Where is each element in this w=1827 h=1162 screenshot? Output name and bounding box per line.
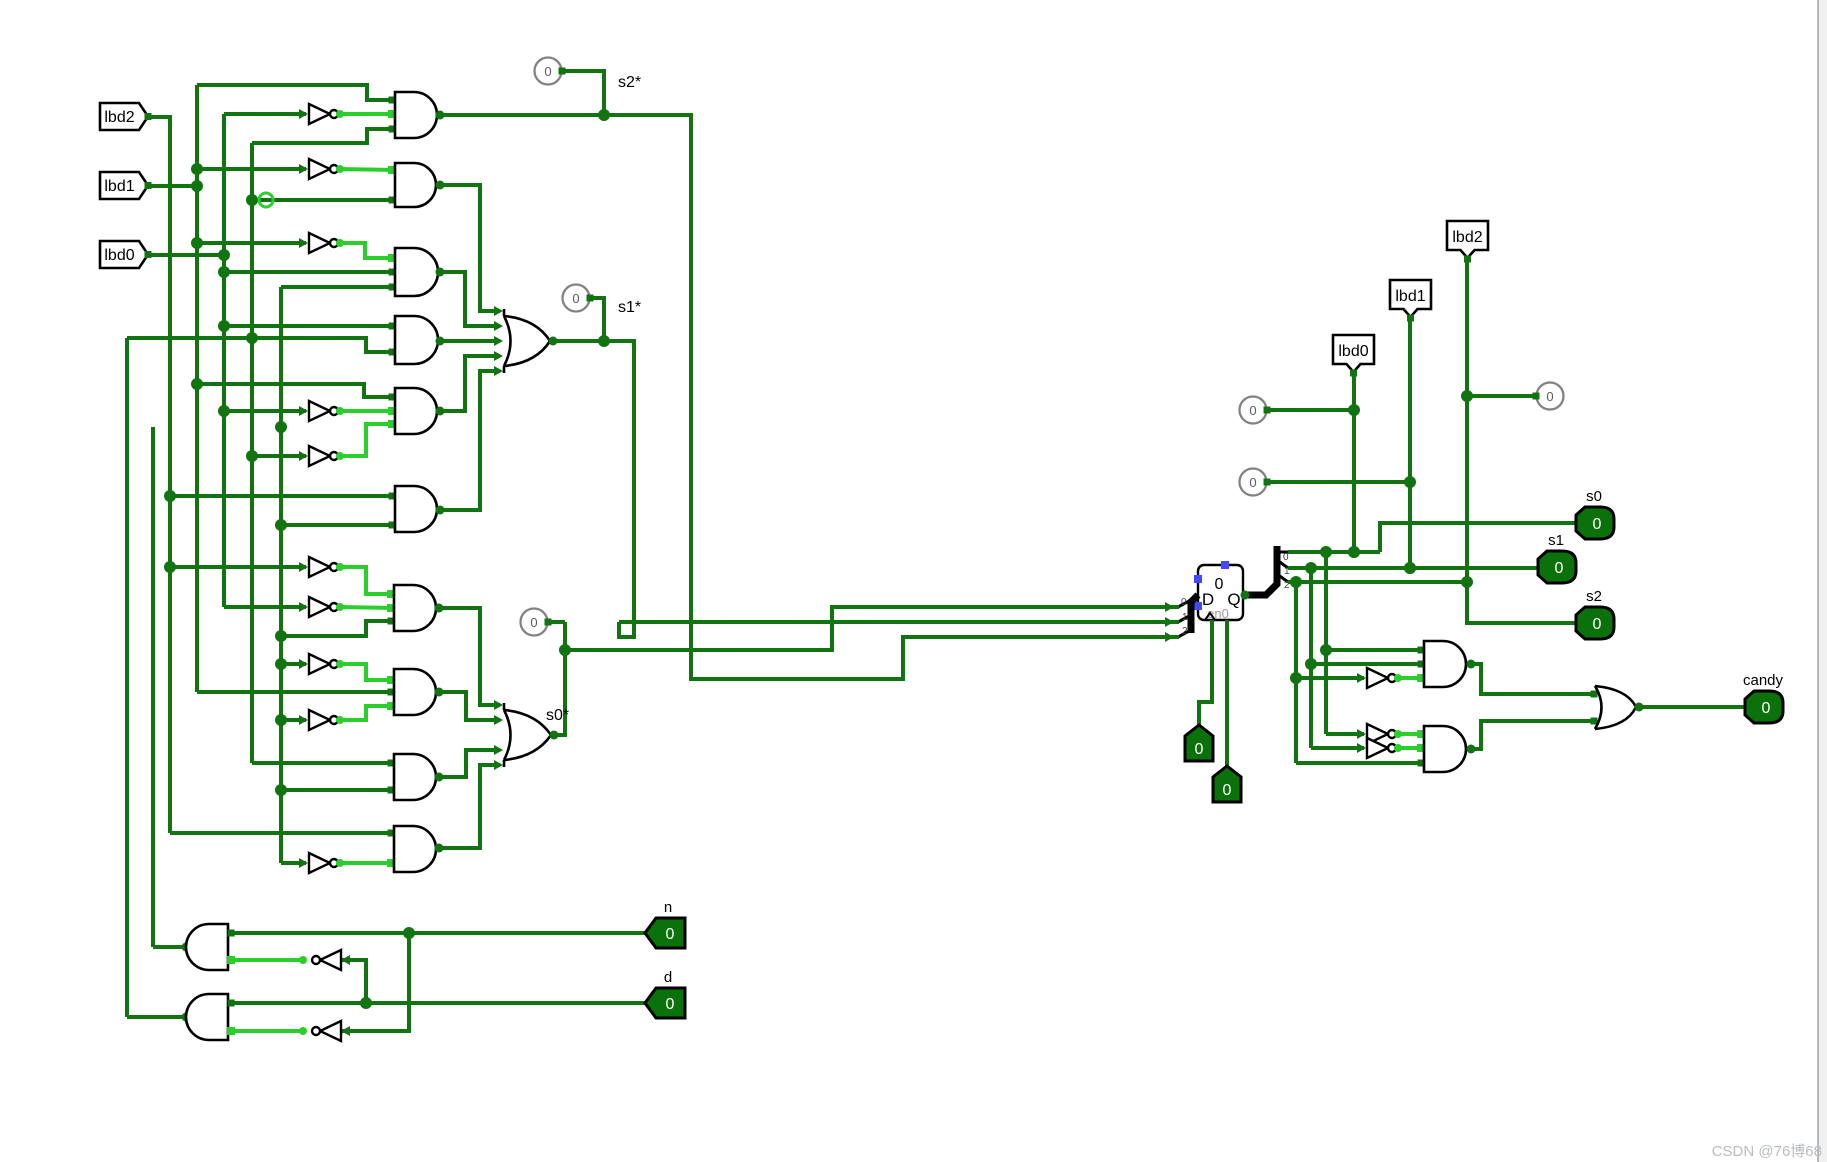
pin n (input) <box>645 918 685 948</box>
wire NOT2 output (high) <box>336 165 396 174</box>
tunnel lbd1 (right) <box>1390 280 1431 322</box>
wire NOT3 output jog (high) <box>336 239 396 262</box>
svg-text:0: 0 <box>666 996 675 1013</box>
and gate GB <box>1424 726 1466 772</box>
wire net q2 row <box>1288 576 1467 588</box>
svg-text:2: 2 <box>1182 626 1188 637</box>
wire net n-feedback vertical <box>151 427 155 947</box>
svg-text:0: 0 <box>1555 560 1564 577</box>
label candy <box>1743 672 1784 689</box>
and gate G2 <box>395 163 436 207</box>
wire net lbd1 vertical v2 <box>146 85 203 692</box>
and gate G8 <box>394 669 436 715</box>
wire NOT14 output (high) <box>1394 730 1425 738</box>
and gate GA <box>1424 641 1466 687</box>
wire net lbd2 vertical v1 <box>146 117 176 833</box>
svg-text:lbd2: lbd2 <box>104 109 134 126</box>
label s0* <box>546 707 569 724</box>
wire net s2* <box>436 109 1171 679</box>
svg-text:s0: s0 <box>1586 488 1602 505</box>
wire G9 pin1 from v4 <box>252 760 395 767</box>
wire NOT5 input <box>252 451 308 461</box>
probe right lbd0 <box>1240 397 1355 424</box>
and gate G6 <box>395 486 437 532</box>
wire net lbd0 right vertical <box>1348 373 1360 558</box>
and gate G5 <box>395 388 437 434</box>
inverter NOT13 <box>1367 668 1396 688</box>
and gate G9 <box>394 754 436 800</box>
wire G4 output to OR1 in3 <box>436 336 504 346</box>
svg-text:CSDN @76博68: CSDN @76博68 <box>1712 1143 1822 1160</box>
wire NOT1 output (high) <box>336 110 396 118</box>
label s0 <box>1586 488 1602 505</box>
label s2* <box>618 74 641 91</box>
svg-text:s0*: s0* <box>546 707 569 724</box>
wire G5 output to OR1 in4 <box>436 351 504 416</box>
wire net d input <box>228 997 646 1009</box>
svg-text:0: 0 <box>1593 516 1602 533</box>
wire NOT11 output (high) <box>227 956 307 964</box>
wire G2 pin2 with anchor circle <box>252 193 396 207</box>
wire G10 pin1 from lbd2 <box>170 830 395 837</box>
label s1 <box>1548 532 1564 549</box>
wire NOT10 output (high) <box>336 859 395 867</box>
pin s0 (output) <box>1576 507 1614 539</box>
watermark <box>1712 1143 1822 1160</box>
wire G4 pin2 from d-feedback <box>127 338 396 356</box>
and gate G10 <box>394 826 436 872</box>
label d <box>664 969 672 986</box>
wire G3 pin2 from lbd0 <box>224 269 396 276</box>
or gate OR1 (s1*) <box>504 309 550 373</box>
pin d (input) <box>645 988 685 1018</box>
wire net s1* <box>549 335 1171 637</box>
wire G7 output to OR2 in1 <box>435 604 504 711</box>
wire NOT4 output (high) <box>336 407 396 415</box>
inverter NOT11 (west) <box>312 950 341 970</box>
wire net d-feedback vertical <box>125 338 129 1017</box>
inverter NOT3 <box>309 233 338 253</box>
probe s2* <box>535 58 605 116</box>
svg-text:0: 0 <box>1181 597 1187 608</box>
wire NOT10 input <box>281 858 308 868</box>
wire NOT9 input <box>281 715 308 725</box>
svg-text:n: n <box>664 899 672 916</box>
wire inverter NOT12 input jog <box>341 933 409 1036</box>
tunnel lbd0 (right) <box>1333 335 1374 377</box>
inverter NOT4 <box>309 401 338 421</box>
wire NOT8 output jog (high) <box>336 660 395 684</box>
svg-text:0: 0 <box>1593 616 1602 633</box>
wire G7 pin3 jog <box>281 618 395 637</box>
wire G11 output to n-feedback <box>153 943 191 952</box>
wire net v4 <box>246 143 258 763</box>
wire G8 output to OR2 in2 <box>435 688 504 726</box>
wire G8 pin2 from lbd1 <box>197 689 395 696</box>
inverter NOT1 <box>309 104 338 124</box>
wire net lbd1 right vertical <box>1404 317 1416 574</box>
and gate G11 (west) <box>186 924 228 970</box>
wire net q0 vertical <box>1320 552 1332 734</box>
wire NOT3 input <box>197 238 308 248</box>
inverter NOT8 <box>309 654 338 674</box>
svg-text:lbd2: lbd2 <box>1452 229 1482 246</box>
wire G6 pin1 from lbd2 <box>170 493 396 500</box>
wire G6 pin2 from v5 <box>281 522 396 529</box>
wire G5 pin1 <box>197 384 396 401</box>
svg-text:lbd0: lbd0 <box>1338 343 1368 360</box>
wire net q2 vertical <box>1290 582 1302 763</box>
wire net s0* <box>550 607 1171 740</box>
scrollbar <box>1818 0 1827 1162</box>
pin s2 (output) <box>1576 607 1614 639</box>
wire net q1 vertical <box>1305 568 1317 748</box>
inverter NOT7 <box>309 597 338 617</box>
svg-text:0: 0 <box>1249 403 1256 418</box>
svg-text:0: 0 <box>1546 389 1553 404</box>
wire G1 pin3 <box>252 126 396 144</box>
wire G9 output to OR2 in4 <box>435 745 504 782</box>
wire GA output to OR3 <box>1467 660 1598 698</box>
label s2 <box>1586 588 1602 605</box>
wire G2 output to OR1 in1 <box>436 181 504 317</box>
wire NOT12 output (high) <box>227 1027 307 1035</box>
inverter NOT5 <box>309 446 338 466</box>
and gate G4 <box>395 316 438 364</box>
inverter NOT10 <box>309 853 338 873</box>
wire NOT15 input <box>1311 743 1366 753</box>
inverter NOT12 (west) <box>312 1021 341 1041</box>
svg-text:Q: Q <box>1227 590 1240 609</box>
wire NOT6 output jog (high) <box>336 563 395 598</box>
tunnel lbd2 (left input) <box>100 103 152 130</box>
svg-text:0: 0 <box>1249 475 1256 490</box>
pin register clock (input) <box>1213 766 1241 802</box>
wire G3 pin3 from v5 <box>281 284 396 291</box>
inverter NOT15 <box>1367 738 1396 758</box>
wire GA pin2 <box>1311 661 1425 668</box>
wire NOT1 input <box>224 109 308 119</box>
probe s1* <box>563 285 605 342</box>
svg-text:s2*: s2* <box>618 74 641 91</box>
inverter NOT2 <box>309 159 338 179</box>
svg-text:candy: candy <box>1743 672 1784 689</box>
wire NOT15 output (high) <box>1394 744 1425 752</box>
svg-text:lbd0: lbd0 <box>104 247 134 264</box>
svg-text:d: d <box>664 969 672 986</box>
wire G1 pin1 from lbd1 <box>197 85 396 104</box>
wire register enable pin jog <box>1199 620 1212 727</box>
register REG1 (D flip-flop, en0) <box>1194 561 1243 621</box>
and gate G1 <box>395 92 437 138</box>
svg-text:s1: s1 <box>1548 532 1564 549</box>
svg-text:0: 0 <box>544 64 551 79</box>
wire net lbd0 vertical v3 <box>146 114 230 607</box>
and gate G12 (west) <box>186 994 228 1040</box>
svg-text:1: 1 <box>1182 612 1188 623</box>
wire net candy <box>1635 703 1746 712</box>
probe right lbd2 <box>1467 383 1564 410</box>
wire NOT13 input <box>1296 673 1366 683</box>
wire G10 output to OR2 in5 <box>435 760 504 853</box>
wire G3 output to OR1 in2 <box>436 268 504 332</box>
wire NOT4 input <box>224 406 308 416</box>
wire G12 output to d-feedback <box>127 1013 191 1022</box>
wire GA pin1 <box>1326 647 1425 654</box>
wire G9 pin2 from v5 <box>281 787 395 794</box>
svg-text:0: 0 <box>1195 741 1204 758</box>
wire inverter NOT11 input jog <box>341 955 366 1003</box>
wire NOT8 input <box>281 659 308 669</box>
svg-text:lbd1: lbd1 <box>104 178 134 195</box>
svg-text:0: 0 <box>530 615 537 630</box>
label n <box>664 899 672 916</box>
wire NOT13 output (high) <box>1394 674 1425 682</box>
wire NOT7 output (high) <box>336 603 395 612</box>
or gate OR3 (candy) <box>1595 686 1636 729</box>
wire net v5 <box>275 287 287 863</box>
probe s0* <box>521 609 566 636</box>
wire net q1 row <box>1288 562 1539 574</box>
svg-text:s2: s2 <box>1586 588 1602 605</box>
svg-text:lbd1: lbd1 <box>1395 288 1425 305</box>
inverter NOT6 <box>309 557 338 577</box>
inverter NOT9 <box>309 710 338 730</box>
and gate G7 <box>394 585 436 631</box>
svg-text:0: 0 <box>1762 700 1771 717</box>
and gate G3 <box>395 248 438 296</box>
wire GB pin3 <box>1296 760 1425 767</box>
pin candy (output) <box>1745 691 1783 723</box>
tunnel lbd0 (left input) <box>100 241 152 268</box>
splitter SPL2 (register Q fan-out, 3-bit) <box>1241 546 1291 600</box>
or gate OR2 (s0*) <box>504 703 551 767</box>
wire NOT5 output jog (high) <box>336 420 396 460</box>
wire net q0 row <box>1288 523 1576 558</box>
wire G6 output to OR1 in5 <box>436 366 504 515</box>
probe right lbd1 <box>1240 469 1411 496</box>
wire NOT6 input <box>170 562 308 572</box>
inverter NOT14 <box>1367 724 1396 744</box>
wire NOT7 input <box>224 602 308 612</box>
tunnel lbd1 (left input) <box>100 172 152 199</box>
splitter SPL1 (3-bit fan-in to register D) <box>1165 595 1198 642</box>
tunnel lbd2 (right) <box>1447 221 1488 263</box>
svg-text:s1*: s1* <box>618 299 641 316</box>
label s1* <box>618 299 641 316</box>
svg-text:0: 0 <box>1223 782 1232 799</box>
svg-text:0: 0 <box>666 926 675 943</box>
wire register second pin <box>1225 620 1229 768</box>
svg-text:0: 0 <box>572 291 579 306</box>
svg-text:0: 0 <box>1215 576 1224 593</box>
wire net lbd2 right vertical <box>1461 258 1576 623</box>
wire G4 pin1 from lbd0 <box>224 323 396 330</box>
pin register enable (input) <box>1185 725 1213 761</box>
wire NOT2 input <box>197 164 308 174</box>
wire NOT14 input <box>1326 729 1366 739</box>
wire GB output to OR3 <box>1467 718 1598 754</box>
pin s1 (output) <box>1538 551 1576 583</box>
wire NOT9 output jog (high) <box>336 702 395 724</box>
wire net n input <box>228 927 646 939</box>
